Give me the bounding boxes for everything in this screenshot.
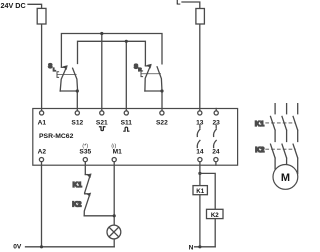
wire S12 (from SL bottom) [76, 91, 78, 111]
node junction S11/inner loop [125, 40, 128, 43]
svg-text:K2: K2 [255, 147, 265, 154]
svg-text:K2: K2 [211, 212, 219, 219]
terminal 24 [214, 158, 218, 162]
node junction S21/outer loop [100, 32, 103, 35]
svg-text:S22: S22 [156, 119, 168, 126]
terminal S12 [75, 111, 79, 115]
svg-text:K1: K1 [196, 188, 204, 195]
terminal 14 [198, 158, 202, 162]
wire 24 stub [215, 160, 217, 166]
svg-text:K2: K2 [72, 202, 82, 209]
node junction A2/0V [40, 245, 43, 248]
wire outer loop (S21 rail to switch outer contacts) [61, 34, 162, 67]
wire inner loop (S11 rail to switch inner contacts) [78, 41, 146, 65]
contact 13-14 (internal, redundant NO) [197, 125, 200, 147]
svg-text:0V: 0V [13, 244, 22, 251]
coil K2 [207, 209, 224, 218]
svg-text:M1: M1 [113, 149, 122, 156]
svg-text:M: M [281, 172, 290, 184]
rail 0V [26, 246, 115, 248]
wire A2 to 0V [41, 160, 43, 247]
terminal S11 [124, 111, 128, 115]
terminal S35 [83, 158, 87, 162]
svg-text:K1: K1 [73, 182, 83, 189]
terminal 13 [198, 111, 202, 115]
node junction K1/N [198, 245, 201, 248]
terminal S21 [100, 111, 104, 115]
wire 23 stub [215, 109, 217, 112]
node junction 14/K2-branch [198, 172, 201, 175]
wire S35 down [84, 160, 86, 175]
svg-text:L: L [53, 67, 56, 72]
svg-text:A2: A2 [38, 149, 47, 156]
node junction M1/lamp [113, 214, 116, 217]
contact K1 (NC, positive opening) [85, 174, 92, 193]
rail N [195, 246, 216, 248]
svg-text:S11: S11 [121, 119, 133, 126]
wire M1 down through lamp to 0V [113, 160, 115, 247]
switch SR (two-hand button right, NC+NO) [141, 64, 164, 93]
wire K2 bottom to lamp node [84, 215, 114, 217]
svg-text:K1: K1 [255, 121, 265, 128]
terminal A2 [39, 158, 43, 162]
wire L feed to 13 [182, 2, 200, 111]
fuse F1 (24V DC line) [37, 8, 46, 24]
relay box PSR-MC62 [33, 109, 238, 166]
symbol falling-delay under S21 [100, 127, 105, 131]
svg-text:24V DC: 24V DC [1, 1, 26, 10]
wire 24V DC feed to A1 [28, 4, 42, 111]
svg-text:14: 14 [196, 149, 204, 156]
svg-text:S: S [48, 64, 52, 70]
svg-text:24: 24 [212, 149, 220, 156]
wire S21 [101, 34, 103, 111]
switch SL (two-hand button left, NC+NO) [57, 66, 79, 93]
lamp H1 (indicator) [107, 225, 121, 239]
coil K1 [193, 186, 207, 195]
fuse F2 (L line) [196, 9, 205, 25]
svg-text:S21: S21 [96, 119, 108, 126]
terminal M1 [112, 158, 116, 162]
terminal 23 [214, 111, 218, 115]
link K2 contacts (dashed) [266, 148, 296, 150]
wire S22 (from SR bottom) [161, 91, 163, 111]
svg-text:PSR-MC62: PSR-MC62 [39, 133, 74, 140]
svg-text:13: 13 [196, 119, 204, 126]
svg-text:S12: S12 [71, 119, 83, 126]
svg-text:N: N [189, 244, 194, 251]
wire S11 [125, 41, 127, 111]
terminal A1 [40, 111, 44, 115]
contact K2 (NC, positive opening) [84, 193, 91, 216]
wire branch to K2 coil [200, 173, 215, 246]
svg-text:S35: S35 [79, 149, 91, 156]
motor M [273, 165, 298, 190]
svg-text:L: L [176, 0, 181, 6]
terminal S22 [160, 111, 164, 115]
contactor contacts K1/K2 three phase [271, 104, 298, 174]
contact 23-24 (internal, redundant NO) [214, 125, 217, 147]
symbol pulse under S11 [124, 127, 129, 131]
wire 14 down to N [199, 160, 201, 247]
svg-text:23: 23 [213, 119, 221, 126]
svg-text:A1: A1 [38, 119, 47, 126]
link K1 contacts (dashed) [266, 122, 296, 124]
